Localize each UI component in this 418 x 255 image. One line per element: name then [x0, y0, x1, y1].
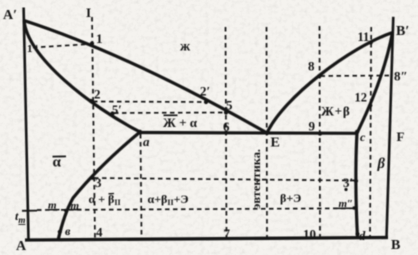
svg-text:a: a	[143, 134, 150, 149]
svg-text:A: A	[16, 239, 27, 254]
svg-text:в: в	[65, 224, 71, 238]
svg-text:5: 5	[226, 98, 233, 113]
svg-text:1″: 1″	[27, 43, 39, 55]
svg-text:6: 6	[223, 119, 230, 134]
svg-text:эвтектика.: эвтектика.	[251, 149, 263, 209]
svg-text:8″: 8″	[394, 69, 408, 84]
svg-text:3: 3	[95, 175, 102, 190]
svg-text:F: F	[397, 129, 405, 144]
svg-text:8: 8	[308, 59, 315, 74]
svg-text:10: 10	[303, 227, 316, 242]
svg-text:I: I	[86, 5, 91, 20]
svg-text:2: 2	[94, 87, 101, 102]
svg-text:ж: ж	[180, 40, 191, 55]
svg-text:12: 12	[355, 91, 368, 105]
svg-text:A′: A′	[3, 8, 17, 23]
svg-text:1: 1	[96, 31, 103, 46]
svg-text:d: d	[359, 229, 366, 243]
svg-text:Ж+β: Ж+β	[321, 104, 351, 119]
svg-text:9: 9	[309, 119, 316, 134]
svg-text:2′: 2′	[200, 84, 210, 99]
svg-text:c: c	[360, 130, 366, 144]
svg-text:B: B	[391, 238, 400, 253]
svg-text:5′: 5′	[112, 103, 122, 117]
svg-text:β: β	[377, 156, 386, 172]
svg-text:4: 4	[96, 225, 103, 240]
svg-text:11: 11	[358, 30, 370, 44]
svg-text:3′: 3′	[343, 175, 353, 190]
svg-text:E: E	[271, 136, 280, 151]
svg-text:Ж + α: Ж + α	[163, 115, 198, 130]
svg-text:7: 7	[224, 226, 231, 241]
svg-text:B′: B′	[396, 24, 409, 39]
svg-text:β+Э: β+Э	[280, 191, 301, 205]
